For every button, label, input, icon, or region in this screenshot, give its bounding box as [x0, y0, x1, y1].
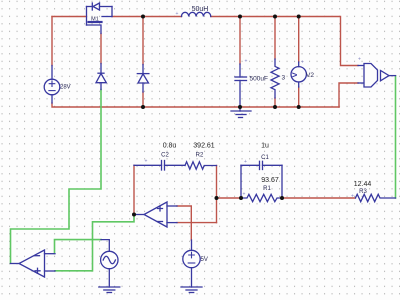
svg-text:28V: 28V: [60, 84, 71, 90]
svg-text:R2: R2: [196, 153, 204, 159]
svg-text:392.61: 392.61: [193, 142, 215, 149]
svg-text:C2: C2: [161, 153, 169, 159]
svg-text:12.44: 12.44: [354, 181, 372, 188]
svg-text:500uF: 500uF: [250, 76, 268, 83]
svg-text:93.67: 93.67: [261, 177, 279, 184]
svg-text:1u: 1u: [261, 143, 269, 150]
svg-text:+: +: [358, 57, 361, 63]
svg-text:R3: R3: [359, 189, 367, 195]
svg-text:M1: M1: [91, 17, 99, 23]
svg-text:+: +: [244, 159, 247, 165]
svg-text:3: 3: [282, 75, 286, 82]
svg-text:+: +: [245, 59, 248, 65]
svg-text:R1: R1: [263, 186, 271, 192]
svg-text:+: +: [176, 11, 179, 17]
svg-text:0.8u: 0.8u: [163, 142, 177, 149]
svg-text:+: +: [145, 159, 148, 165]
svg-text:+: +: [351, 194, 354, 200]
svg-text:C1: C1: [261, 155, 269, 161]
svg-text:+: +: [243, 192, 246, 198]
svg-text:50uH: 50uH: [192, 6, 209, 13]
svg-text:>: >: [292, 70, 298, 81]
svg-text:5V: 5V: [201, 257, 208, 263]
svg-text:+: +: [301, 60, 304, 66]
svg-text:V2: V2: [306, 72, 314, 79]
